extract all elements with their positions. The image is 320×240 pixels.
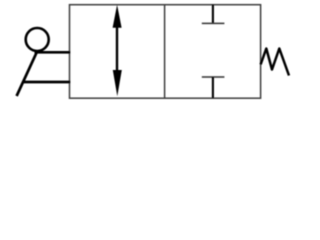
lever arm top line to valve body xyxy=(35,51,71,54)
roller (circle) of lever actuator xyxy=(26,28,49,51)
top port stem xyxy=(212,5,214,24)
return spring (right side zigzag) xyxy=(261,49,289,76)
bottom arrowhead xyxy=(113,70,122,96)
blocked port T (right cell top) xyxy=(202,5,225,24)
top port crossbar xyxy=(202,22,225,24)
arrow shaft xyxy=(116,24,118,74)
position divider line xyxy=(164,5,166,99)
lever diagonal line xyxy=(17,52,37,96)
valve body outline (2-position box) xyxy=(70,5,261,99)
bottom port stem xyxy=(212,77,214,98)
lever lower line to valve body xyxy=(23,81,70,84)
bottom port crossbar xyxy=(202,76,225,78)
flow-path arrow (left cell, double headed) xyxy=(113,5,122,97)
blocked port T (right cell bottom) xyxy=(202,77,225,98)
top arrowhead xyxy=(113,5,122,28)
